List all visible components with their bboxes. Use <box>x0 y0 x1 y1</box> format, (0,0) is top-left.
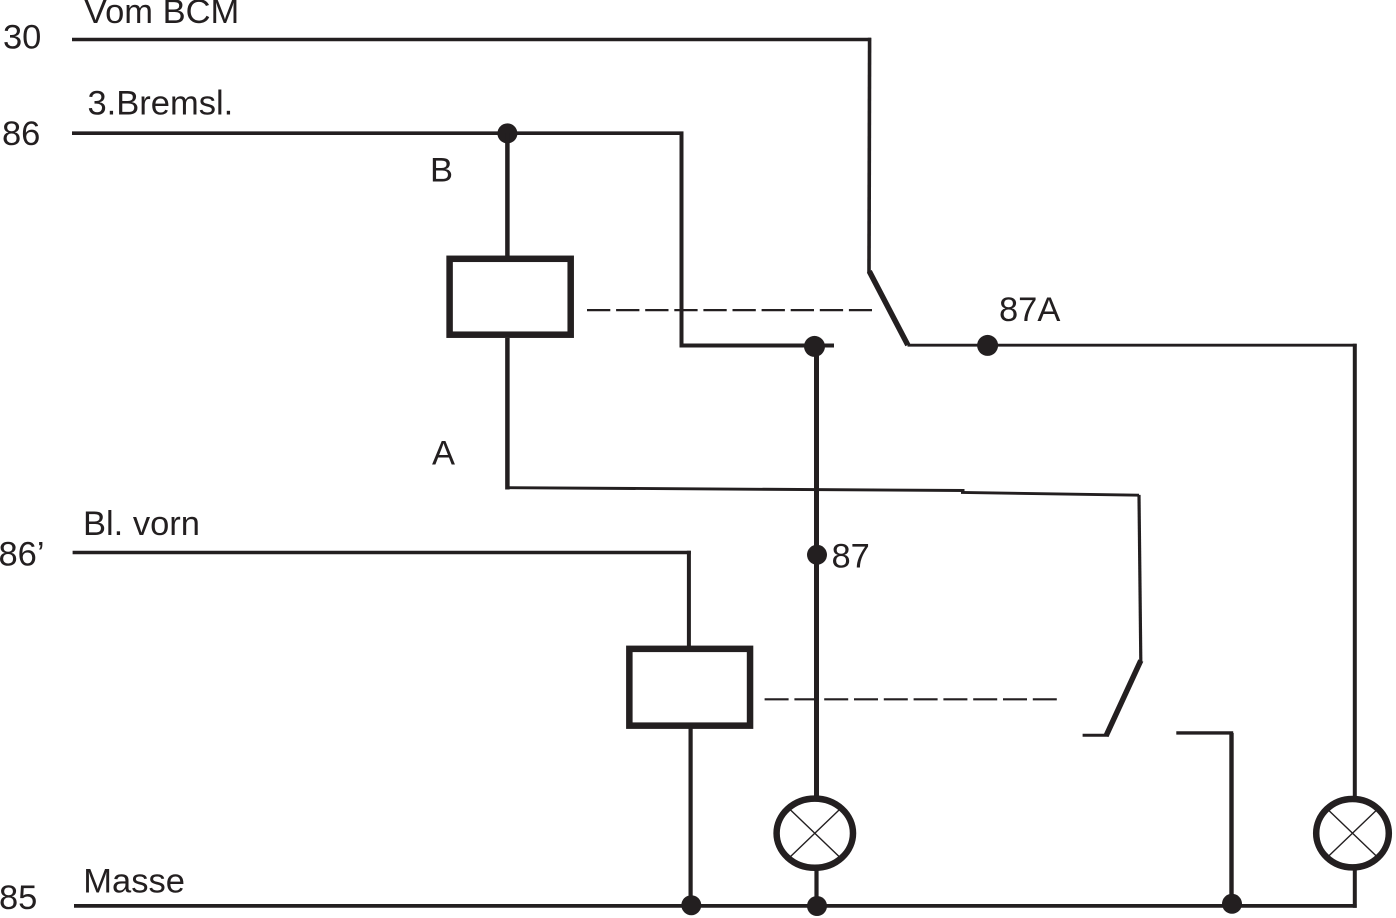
relay contact arm S1 (movable blade from 30) <box>869 271 908 345</box>
svg-text:Bl. vorn: Bl. vorn <box>83 505 200 543</box>
wire: rail 86 branch down and across to node <box>682 132 835 346</box>
svg-text:B: B <box>430 152 453 190</box>
wire: lamp L2 to ground rail <box>1353 868 1357 908</box>
wire: drop from rail 30 to contact arm S1 <box>867 38 871 273</box>
node 87 <box>807 545 827 565</box>
wire: coil K2 bottom to ground rail <box>688 728 692 906</box>
contact stub at arm S2 foot <box>1083 734 1109 737</box>
wire: rail 86' (Bl. vorn) <box>73 551 691 555</box>
relay coil K2 <box>629 649 750 726</box>
svg-text:30: 30 <box>3 19 41 57</box>
node on Masse rail (S2 terminal) <box>1222 894 1242 914</box>
wire: 87A line down to lamp L2 <box>1353 344 1357 797</box>
svg-text:Masse: Masse <box>83 863 185 901</box>
dashed actuation link relay K1 <box>587 309 872 311</box>
wire: rail 30 (Vom BCM) <box>72 38 871 42</box>
lamp L2 (right blinker) <box>1316 799 1389 867</box>
relay contact arm S2 (movable blade) <box>1106 661 1141 737</box>
svg-text:86’: 86’ <box>0 536 45 574</box>
svg-text:3.Bremsl.: 3.Bremsl. <box>88 85 234 123</box>
lamp L1 (third brake light) <box>777 799 853 868</box>
svg-text:87A: 87A <box>999 291 1060 329</box>
svg-text:A: A <box>432 435 455 473</box>
dashed actuation link relay K2 <box>765 698 1057 700</box>
wire: rail 86' drop to relay coil K2 <box>687 551 691 647</box>
node B junction on rail 86 <box>497 123 517 143</box>
contact fixed terminal of S2 <box>1176 731 1233 734</box>
node on Masse rail (coil K2) <box>681 895 701 915</box>
node 87A junction <box>977 335 998 356</box>
svg-text:86: 86 <box>2 115 40 153</box>
wire: A line second segment <box>961 492 1139 495</box>
wire: coil K1 bottom to node A <box>505 338 510 490</box>
wire: contact S1 output to 87A line <box>908 344 1357 347</box>
node on Masse rail (lamp L1) <box>807 896 827 916</box>
wire: drop to contact arm S2 <box>1139 495 1141 661</box>
node junction (86 branch / lamp feed) <box>804 336 825 357</box>
wire: lamp L1 to ground rail <box>814 868 818 906</box>
wire: rail 86 (3.Bremsl.) <box>72 131 684 135</box>
wire: A line across to contact S2 <box>507 488 964 491</box>
wire: junction down to lamp L1 (pin 87 feed) <box>814 345 819 797</box>
svg-text:Vom BCM: Vom BCM <box>84 0 239 31</box>
relay coil K1 <box>450 259 571 335</box>
wire: rail 85 Masse (ground) <box>74 904 1357 908</box>
svg-text:85: 85 <box>0 879 37 917</box>
wire: S2 terminal down to ground rail <box>1229 733 1233 906</box>
wire: node B down to relay coil K1 <box>505 133 510 258</box>
svg-text:87: 87 <box>832 538 870 576</box>
